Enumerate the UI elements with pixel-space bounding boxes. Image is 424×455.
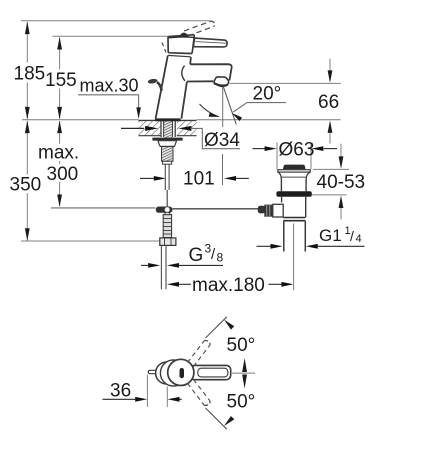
- cartridge cap: [168, 35, 194, 54]
- countertop hatched slab left piece: [139, 120, 161, 135]
- mounting nut: [158, 141, 177, 147]
- arrowheads 185: [25, 22, 30, 241]
- drain body upper: [280, 180, 282, 192]
- svg-text:/: /: [350, 228, 354, 244]
- mounting washer bar: [152, 138, 182, 141]
- pop-up rod: [173, 208, 259, 210]
- faucet base bar: [155, 118, 181, 121]
- svg-text:20°: 20°: [253, 84, 282, 105]
- spout bottom edge: [187, 80, 213, 82]
- leader max.30: [78, 95, 139, 108]
- G3/8 nut: [160, 238, 176, 246]
- svg-text:G1: G1: [319, 226, 342, 245]
- side port body: [273, 204, 283, 217]
- spout vertical reference line: [222, 87, 224, 127]
- G1 1/4 dimension: [257, 245, 272, 247]
- aerator tip: [214, 77, 229, 87]
- drain bottom cap: [283, 217, 305, 219]
- dimension line 185/350 vertical: [26, 22, 28, 241]
- drain body lower: [281, 197, 283, 203]
- drain tailpipe: [283, 221, 285, 252]
- knurled adjuster on pull rod: [163, 215, 171, 238]
- extension line 350 bottom: [21, 240, 160, 242]
- countertop surface line: [22, 119, 139, 121]
- svg-text:4: 4: [356, 233, 362, 245]
- svg-text:36: 36: [110, 381, 131, 402]
- 36 dimension: [146, 375, 148, 408]
- cartridge circle: [160, 360, 186, 386]
- faucet threaded shank through slab: [161, 121, 175, 161]
- drain dome cap: [283, 165, 306, 170]
- svg-text:max.30: max.30: [80, 76, 139, 96]
- spout stub top view: [148, 370, 161, 373]
- drain lock flange dark band: [276, 191, 311, 197]
- faucet body left edge: [156, 55, 168, 118]
- extension line max300 bottom: [51, 207, 156, 209]
- water stream 20 deg line: [223, 87, 236, 125]
- svg-text:350: 350: [10, 175, 42, 196]
- upper rotated lever dashed: [188, 341, 211, 367]
- svg-text:50°: 50°: [227, 335, 256, 356]
- handle axis line: [232, 372, 255, 374]
- Ø34 dimension arrows in slab: [121, 127, 144, 129]
- cap/body seam: [168, 55, 191, 56]
- faucet body right edge upper: [189, 57, 192, 64]
- extension line 66 top: [229, 82, 340, 84]
- lever bar inner line: [196, 42, 227, 44]
- body circle top view: [156, 362, 178, 384]
- supply pipe lower: [160, 245, 162, 289]
- G3/8 dimension: [141, 264, 149, 266]
- handle base circle: [168, 359, 194, 385]
- lever pivot wedge: [179, 33, 188, 37]
- max.180 dimension: [167, 282, 179, 287]
- swing double arrow: [242, 358, 247, 372]
- handle bar top view: [190, 365, 231, 379]
- svg-text:max.180: max.180: [192, 275, 265, 296]
- svg-text:50°: 50°: [227, 392, 256, 413]
- lever bar: [193, 38, 227, 47]
- svg-text:185: 185: [14, 64, 46, 85]
- svg-text:Ø34: Ø34: [204, 130, 240, 151]
- dimension 40-53: [340, 144, 342, 157]
- drain centerline: [293, 224, 295, 291]
- Ø34 leader and label: [191, 128, 241, 148]
- rod clamp fitting: [156, 207, 173, 213]
- drain flange: [278, 170, 310, 172]
- spout top edge: [190, 64, 232, 80]
- svg-text:155: 155: [45, 70, 77, 91]
- upper 50deg leg: [206, 317, 227, 338]
- svg-text:Ø63: Ø63: [279, 140, 315, 161]
- countertop hatched slab right piece: [177, 120, 197, 135]
- extension line 155 top: [52, 35, 168, 37]
- cap top rim: [169, 36, 194, 39]
- stud step: [163, 161, 172, 164]
- handle slot: [180, 368, 185, 378]
- 101 dimension: [140, 177, 154, 179]
- svg-text:40-53: 40-53: [317, 172, 366, 193]
- spout root curve: [182, 66, 185, 81]
- handle bar inner: [198, 368, 228, 377]
- svg-text:101: 101: [183, 169, 215, 190]
- threaded stud below nut: [162, 147, 174, 162]
- faucet body right edge lower: [181, 82, 187, 119]
- arrowheads 155: [57, 37, 62, 207]
- cap left dashed: [162, 43, 166, 53]
- side port nut: [264, 205, 273, 217]
- extension line 185 top: [21, 20, 210, 22]
- svg-text:max.: max.: [38, 143, 79, 164]
- 20 deg angle arc: [200, 104, 219, 116]
- svg-text:8: 8: [217, 251, 224, 265]
- svg-text:300: 300: [47, 164, 79, 185]
- Ø63 dimension: [276, 143, 278, 170]
- raised lever dashed: [184, 21, 214, 36]
- rod ball joint: [258, 206, 266, 214]
- svg-text:G: G: [189, 245, 204, 266]
- 20 deg leader: [233, 103, 286, 112]
- svg-text:66: 66: [318, 92, 339, 113]
- pull rod wire: [166, 190, 168, 207]
- supply tube upper: [164, 164, 166, 190]
- lower rotated lever dashed: [188, 380, 211, 406]
- pull rod knob: [147, 78, 157, 84]
- dimension line 155/max300 vertical: [59, 38, 61, 207]
- lower 50deg leg: [206, 408, 227, 429]
- dimension 66: [329, 59, 331, 72]
